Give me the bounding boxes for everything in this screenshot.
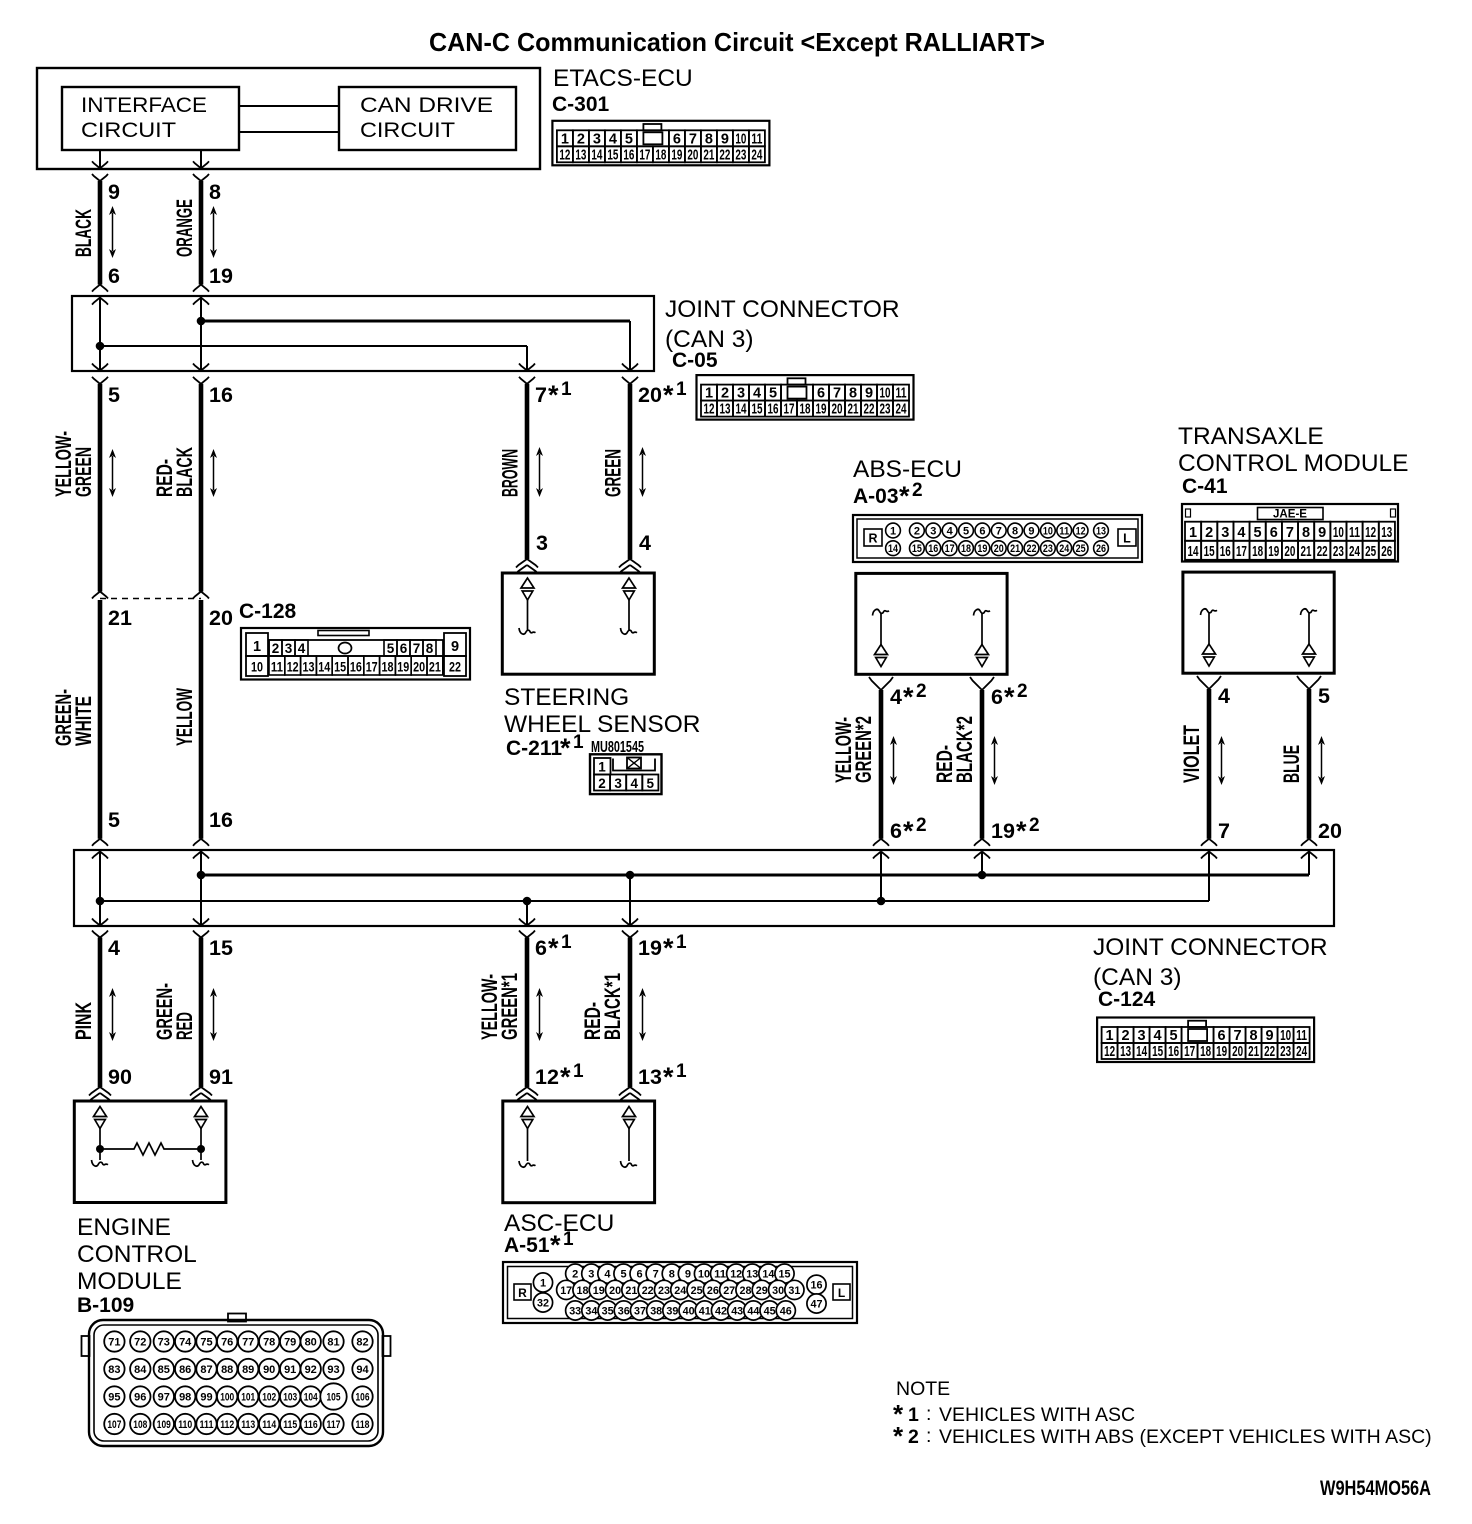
- svg-text:2: 2: [598, 776, 606, 791]
- pin label 5 below C-05: [108, 383, 120, 407]
- svg-text:24: 24: [751, 147, 762, 163]
- svg-text:19: 19: [397, 660, 409, 675]
- svg-text:15: 15: [209, 936, 233, 960]
- double arrow YELLOW-GREEN*2: [890, 736, 897, 785]
- wire color label YELLOW-GREEN: [51, 431, 96, 497]
- svg-text:14: 14: [1188, 544, 1199, 560]
- svg-text:CONTROL: CONTROL: [77, 1241, 197, 1268]
- wire RED-BLACK pin16 to C-128 pin20: [193, 384, 209, 599]
- svg-text:7: 7: [1218, 819, 1230, 843]
- double arrow BLUE: [1318, 736, 1325, 785]
- svg-text:VEHICLES WITH ASC: VEHICLES WITH ASC: [939, 1404, 1135, 1426]
- svg-text:8: 8: [426, 641, 434, 656]
- svg-text:ORANGE: ORANGE: [172, 199, 197, 257]
- joint connector C-05 band box: [72, 296, 654, 371]
- svg-text:21: 21: [1248, 1044, 1259, 1060]
- svg-text:MODULE: MODULE: [77, 1268, 182, 1295]
- pin 7 label: [1218, 819, 1230, 843]
- svg-text:GREEN*1: GREEN*1: [497, 973, 522, 1040]
- svg-text:11: 11: [751, 131, 762, 147]
- svg-text:9: 9: [1028, 525, 1034, 537]
- svg-text:21: 21: [429, 660, 441, 675]
- label B-109: [77, 1294, 134, 1317]
- svg-text:17: 17: [1236, 544, 1247, 560]
- svg-text:*: *: [663, 380, 674, 410]
- svg-text:9: 9: [451, 639, 459, 655]
- pin 19*2 label: [991, 815, 1040, 846]
- steering sensor internal terminal x=629: [621, 578, 638, 634]
- pin label 6*1 below C-124: [535, 932, 572, 963]
- svg-text:28: 28: [740, 1285, 752, 1297]
- svg-text:*: *: [1016, 816, 1027, 846]
- bus wire A inside C-124 to pin 20: [201, 850, 1309, 875]
- svg-text:18: 18: [382, 660, 394, 675]
- wire RED-BLACK*2 ABS pin6 to C-124 pin19: [970, 677, 994, 859]
- svg-text:20: 20: [687, 147, 698, 163]
- svg-text:CONTROL MODULE: CONTROL MODULE: [1178, 450, 1409, 477]
- svg-text:*: *: [560, 1062, 571, 1092]
- svg-text:(CAN 3): (CAN 3): [1093, 964, 1181, 991]
- svg-text:24: 24: [1349, 544, 1360, 560]
- svg-text:L: L: [838, 1286, 845, 1300]
- wire ORANGE from ETACS pin 8 to C-05 pin 19: [193, 150, 209, 305]
- pin label 4 below C-124: [108, 936, 120, 960]
- pin 6*2 label: [890, 815, 927, 846]
- wire color label VIOLET: [1179, 725, 1204, 783]
- svg-text:4: 4: [604, 1269, 611, 1281]
- label C-41: [1182, 475, 1228, 498]
- connector C-124 graphic: [1097, 1018, 1314, 1063]
- svg-text:21: 21: [1010, 543, 1020, 555]
- ETACS-ECU block outline: [37, 68, 540, 169]
- svg-text:2: 2: [1017, 681, 1028, 702]
- svg-text:3: 3: [593, 131, 601, 147]
- svg-text:20: 20: [1318, 819, 1342, 843]
- double arrow VIOLET: [1218, 736, 1225, 785]
- svg-text:4: 4: [609, 131, 617, 147]
- wire color label BROWN: [498, 449, 523, 497]
- svg-text:13: 13: [638, 1065, 662, 1089]
- note *2: [893, 1421, 1432, 1451]
- svg-text:8: 8: [1302, 525, 1310, 541]
- svg-text:25: 25: [1365, 544, 1376, 560]
- svg-text:23: 23: [658, 1285, 670, 1297]
- svg-text:13: 13: [746, 1269, 758, 1281]
- connector C-05 graphic: [697, 375, 914, 420]
- svg-text:23: 23: [1280, 1044, 1291, 1060]
- wire color label YELLOW-GREEN*1: [477, 973, 522, 1040]
- svg-text:2: 2: [1122, 1028, 1130, 1044]
- svg-text:13: 13: [575, 147, 586, 163]
- svg-text:12: 12: [704, 402, 715, 418]
- C-124 bottom exit pin 19 foot pair: [622, 919, 638, 938]
- connector B-109 graphic: [82, 1314, 391, 1447]
- label ABS-ECU: [853, 456, 962, 483]
- svg-text:15: 15: [1204, 544, 1215, 560]
- pin 16 label above C-124: [209, 808, 233, 832]
- svg-text:16: 16: [623, 147, 634, 163]
- svg-text:CAN DRIVE: CAN DRIVE: [360, 93, 493, 117]
- svg-text:3: 3: [588, 1269, 594, 1281]
- engine control module box: [74, 1101, 226, 1203]
- connector C-211 graphic: [590, 754, 662, 794]
- svg-text:15: 15: [334, 660, 346, 675]
- svg-text:10: 10: [880, 386, 891, 402]
- junction dot C-124 (201,875): [197, 871, 206, 880]
- svg-text:40: 40: [683, 1306, 695, 1318]
- svg-text:16: 16: [768, 402, 779, 418]
- svg-text:2: 2: [1205, 525, 1213, 541]
- junction dot C-124 (982,875): [978, 871, 987, 880]
- junction dot C-05 wire A: [197, 317, 206, 326]
- svg-text::: :: [926, 1403, 931, 1425]
- svg-text:TRANSAXLE: TRANSAXLE: [1178, 423, 1324, 450]
- svg-text:12: 12: [535, 1065, 559, 1089]
- svg-text:20: 20: [609, 1285, 621, 1297]
- svg-text:2: 2: [272, 641, 280, 656]
- svg-text:25: 25: [691, 1285, 703, 1297]
- connector C-128 graphic: [241, 628, 470, 680]
- svg-text:14: 14: [1136, 1044, 1147, 1060]
- junction dot C-124 (630,875): [626, 871, 635, 880]
- svg-text:34: 34: [585, 1306, 598, 1318]
- pin label 20*1 below C-05: [638, 379, 687, 410]
- svg-text:36: 36: [618, 1306, 630, 1318]
- stub wire C-124 pin6(ABS) from top: [880, 852, 882, 902]
- svg-text:14: 14: [591, 147, 602, 163]
- svg-text:17: 17: [945, 543, 955, 555]
- wire YELLOW-GREEN pin5 to C-128 pin21: [92, 384, 108, 599]
- label ETACS-ECU: [553, 65, 693, 92]
- svg-text:30: 30: [772, 1285, 784, 1297]
- double arrow RED-BLACK*1: [639, 988, 646, 1041]
- svg-text:92: 92: [305, 1364, 317, 1376]
- svg-text:84: 84: [134, 1364, 147, 1376]
- wire color label GREEN-RED: [152, 983, 197, 1040]
- pin 5 label above C-124: [108, 808, 120, 832]
- svg-text:1: 1: [561, 379, 572, 400]
- double arrow GREEN-RED: [210, 988, 217, 1041]
- svg-text:21: 21: [1301, 544, 1312, 560]
- svg-text:WHITE: WHITE: [71, 696, 96, 746]
- wire through C-05 at pin19/16: [200, 296, 202, 371]
- connector C-128 interface dashed line: [100, 598, 201, 600]
- svg-text:98: 98: [179, 1392, 191, 1404]
- svg-text:1: 1: [1106, 1028, 1114, 1044]
- svg-text:BLACK*2: BLACK*2: [952, 716, 977, 783]
- svg-text:17: 17: [639, 147, 650, 163]
- pin 4 label: [639, 531, 651, 555]
- ASC internal terminal x=629: [621, 1107, 638, 1168]
- label MU801545: [591, 739, 644, 756]
- pin label 19*1 below C-124: [638, 932, 687, 963]
- pin 6 label: [108, 264, 120, 288]
- svg-text:4: 4: [630, 776, 638, 791]
- svg-text:8: 8: [209, 180, 221, 204]
- connector C-301 graphic: [552, 121, 769, 166]
- svg-text:16: 16: [209, 383, 233, 407]
- pin 4*2 label: [890, 681, 927, 712]
- svg-text:*: *: [560, 733, 571, 763]
- svg-text:VIOLET: VIOLET: [1179, 725, 1204, 783]
- wire color label GREEN: [601, 449, 626, 497]
- label C-301: [552, 93, 610, 116]
- wire color label RED-BLACK: [152, 447, 197, 497]
- pin 5 label: [1318, 684, 1330, 708]
- wire interface-to-candrive lower: [239, 131, 339, 133]
- svg-text:32: 32: [537, 1298, 549, 1310]
- svg-text:4: 4: [1154, 1028, 1162, 1044]
- svg-text:6: 6: [673, 131, 681, 147]
- svg-text:17: 17: [1184, 1044, 1195, 1060]
- svg-text:1: 1: [908, 1404, 919, 1426]
- svg-text:105: 105: [327, 1392, 341, 1404]
- svg-text:6: 6: [400, 641, 408, 656]
- svg-text:20: 20: [994, 543, 1004, 555]
- svg-text:3: 3: [737, 386, 745, 402]
- label STEERING WHEEL SENSOR: [504, 684, 701, 738]
- svg-text:22: 22: [642, 1285, 654, 1297]
- svg-text:10: 10: [1280, 1028, 1291, 1044]
- svg-text:9: 9: [108, 180, 120, 204]
- svg-text:*: *: [903, 682, 914, 712]
- wire color label YELLOW: [172, 688, 197, 746]
- svg-text:12: 12: [1365, 525, 1376, 541]
- svg-text:GREEN*2: GREEN*2: [851, 716, 876, 783]
- svg-text:1: 1: [561, 932, 572, 953]
- pin 90 label: [108, 1065, 132, 1089]
- svg-text:19: 19: [977, 543, 987, 555]
- svg-text:1: 1: [676, 1061, 687, 1082]
- svg-text:10: 10: [1333, 525, 1344, 541]
- svg-text:38: 38: [650, 1306, 662, 1318]
- svg-text:17: 17: [366, 660, 378, 675]
- svg-text:7: 7: [1286, 525, 1294, 541]
- svg-text:CIRCUIT: CIRCUIT: [360, 118, 455, 142]
- svg-text:18: 18: [1200, 1044, 1211, 1060]
- svg-text:L: L: [1123, 532, 1131, 546]
- svg-text:24: 24: [896, 402, 907, 418]
- wire interface-to-candrive upper: [239, 105, 339, 107]
- svg-text:102: 102: [262, 1392, 276, 1404]
- svg-text:7: 7: [535, 383, 547, 407]
- ECM internal terminal x=100: [92, 1107, 109, 1167]
- C-05 bottom exit pin 20 foot pair: [622, 364, 638, 384]
- double arrow PINK: [109, 988, 116, 1041]
- pin 21 label: [108, 606, 132, 630]
- svg-text:2: 2: [916, 815, 927, 836]
- svg-text:1: 1: [573, 1061, 584, 1082]
- svg-text:20: 20: [413, 660, 425, 675]
- svg-text:100: 100: [220, 1392, 234, 1404]
- svg-text:7: 7: [689, 131, 697, 147]
- wire BROWN C-05 pin7 to steering sensor pin3: [516, 384, 538, 574]
- svg-text:9: 9: [1318, 525, 1326, 541]
- pin 91 label: [209, 1065, 233, 1089]
- pin label 15 below C-124: [209, 936, 233, 960]
- svg-text:24: 24: [674, 1285, 687, 1297]
- bus wire B inside C-124 to pin 7: [100, 850, 1209, 901]
- svg-text:WHEEL SENSOR: WHEEL SENSOR: [504, 711, 701, 738]
- svg-text:10: 10: [251, 660, 263, 675]
- svg-text:85: 85: [158, 1364, 170, 1376]
- svg-text:8: 8: [849, 386, 857, 402]
- wire YELLOW-GREEN*1 C-124 to ASC pin 12*1: [516, 938, 538, 1102]
- svg-text:6: 6: [535, 936, 547, 960]
- terminating resistor inside ECM: [100, 1143, 201, 1155]
- svg-text:20: 20: [1232, 1044, 1243, 1060]
- svg-text:23: 23: [1043, 543, 1053, 555]
- svg-text:YELLOW: YELLOW: [172, 688, 197, 746]
- svg-text:35: 35: [602, 1306, 614, 1318]
- svg-text:103: 103: [283, 1392, 297, 1404]
- svg-text:5: 5: [1254, 525, 1262, 541]
- svg-text:BLACK*1: BLACK*1: [600, 973, 625, 1040]
- svg-text:1: 1: [598, 760, 606, 775]
- svg-text:16: 16: [811, 1280, 823, 1292]
- svg-text:74: 74: [179, 1337, 192, 1349]
- C-124 bottom exit pin 15 foot pair: [193, 919, 209, 938]
- svg-text:118: 118: [356, 1419, 370, 1431]
- wire color label PINK: [71, 1002, 96, 1040]
- svg-text:77: 77: [242, 1337, 254, 1349]
- svg-text:88: 88: [221, 1364, 233, 1376]
- svg-text:7: 7: [996, 525, 1002, 537]
- C-124 bottom exit pin 4 foot pair: [92, 919, 108, 938]
- svg-text:15: 15: [1152, 1044, 1163, 1060]
- svg-text:2: 2: [916, 681, 927, 702]
- ECM junction dot x=201: [197, 1145, 205, 1153]
- svg-text:4: 4: [1218, 684, 1230, 708]
- svg-text:41: 41: [699, 1306, 711, 1318]
- svg-text:1: 1: [676, 379, 687, 400]
- svg-text:ABS-ECU: ABS-ECU: [853, 456, 962, 483]
- svg-text:*: *: [548, 933, 559, 963]
- svg-text:*: *: [1004, 682, 1015, 712]
- svg-text:CIRCUIT: CIRCUIT: [81, 118, 176, 142]
- svg-text:81: 81: [327, 1337, 339, 1349]
- svg-text:18: 18: [961, 543, 971, 555]
- svg-text:31: 31: [788, 1285, 800, 1297]
- svg-text:46: 46: [780, 1306, 792, 1318]
- double arrow RED-BLACK: [210, 449, 217, 497]
- junction dot C-05 wire B: [96, 342, 105, 351]
- svg-text:5: 5: [1318, 684, 1330, 708]
- svg-text:12: 12: [730, 1269, 742, 1281]
- svg-text:8: 8: [669, 1269, 675, 1281]
- svg-text:15: 15: [779, 1269, 791, 1281]
- svg-text:*: *: [548, 380, 559, 410]
- svg-text:101: 101: [241, 1392, 255, 1404]
- svg-text:8: 8: [1012, 525, 1018, 537]
- svg-text:CAN-C Communication Circuit <E: CAN-C Communication Circuit <Except RALL…: [429, 27, 1045, 57]
- svg-text:86: 86: [179, 1364, 191, 1376]
- steering sensor internal terminal x=527.5: [519, 578, 536, 634]
- svg-text:12: 12: [287, 660, 299, 675]
- svg-text:18: 18: [577, 1285, 589, 1297]
- svg-text:8: 8: [705, 131, 713, 147]
- svg-text:9: 9: [865, 386, 873, 402]
- svg-text:5: 5: [647, 776, 655, 791]
- svg-text:114: 114: [262, 1419, 277, 1431]
- svg-text:20: 20: [209, 606, 233, 630]
- svg-text:13: 13: [1096, 525, 1106, 537]
- svg-text:2: 2: [908, 1426, 919, 1448]
- double arrow RED-BLACK*2: [991, 736, 998, 785]
- svg-text:15: 15: [752, 402, 763, 418]
- svg-text:3: 3: [614, 776, 622, 791]
- svg-text:108: 108: [133, 1419, 147, 1431]
- svg-text:A-51: A-51: [504, 1234, 550, 1257]
- svg-text:5: 5: [1170, 1028, 1178, 1044]
- label C-211*1: [506, 732, 584, 763]
- svg-text:6: 6: [1270, 525, 1278, 541]
- junction dot C-124 (881,901): [877, 897, 886, 906]
- svg-text:INTERFACE: INTERFACE: [81, 93, 207, 117]
- pin 9 label: [108, 180, 120, 204]
- svg-text:99: 99: [200, 1392, 212, 1404]
- svg-text:4: 4: [1237, 525, 1245, 541]
- svg-text:106: 106: [356, 1392, 370, 1404]
- pin 19 label: [209, 264, 233, 288]
- svg-text:14: 14: [318, 660, 330, 675]
- svg-text:72: 72: [134, 1337, 146, 1349]
- svg-text:16: 16: [928, 543, 938, 555]
- svg-text:7: 7: [1234, 1028, 1242, 1044]
- svg-text:PINK: PINK: [71, 1002, 96, 1040]
- ECM junction dot x=100: [96, 1145, 104, 1153]
- stub wire C-124 pin19(ABS) from top: [981, 852, 983, 876]
- svg-text:44: 44: [747, 1306, 760, 1318]
- double arrow YELLOW-GREEN: [109, 449, 116, 497]
- svg-text:RED: RED: [172, 1012, 197, 1040]
- svg-text:1: 1: [540, 1278, 546, 1290]
- svg-text:116: 116: [304, 1419, 318, 1431]
- svg-text:22: 22: [864, 402, 875, 418]
- wire through C-124 at pin5/4: [99, 850, 101, 926]
- svg-text:BLACK: BLACK: [172, 447, 197, 497]
- svg-text:73: 73: [158, 1337, 170, 1349]
- pin 13*1 label: [638, 1061, 687, 1092]
- svg-text:R: R: [518, 1286, 527, 1300]
- svg-text:4: 4: [753, 386, 761, 402]
- svg-text:JOINT CONNECTOR: JOINT CONNECTOR: [665, 296, 900, 323]
- drawing number W9H54MO56A: [1320, 1477, 1431, 1500]
- interface circuit block U-INT: [62, 87, 239, 150]
- wire GREEN C-05 pin20 to steering sensor pin4: [619, 384, 641, 574]
- svg-text:15: 15: [607, 147, 618, 163]
- svg-text:16: 16: [350, 660, 362, 675]
- svg-text:6: 6: [637, 1269, 643, 1281]
- double arrow BROWN: [536, 447, 543, 497]
- double arrow on ORANGE wire: [210, 206, 217, 258]
- svg-text:6: 6: [108, 264, 120, 288]
- junction dot C-124 (527,901): [523, 897, 532, 906]
- svg-text:13: 13: [1381, 525, 1392, 541]
- label TRANSAXLE CONTROL MODULE: [1178, 423, 1409, 477]
- svg-text:B-109: B-109: [77, 1294, 134, 1317]
- svg-text:4: 4: [639, 531, 651, 555]
- svg-text:4: 4: [947, 525, 954, 537]
- pin 8 label: [209, 180, 221, 204]
- svg-text:BLUE: BLUE: [1279, 745, 1304, 783]
- svg-text:ENGINE: ENGINE: [77, 1214, 171, 1241]
- svg-text:5: 5: [108, 808, 120, 832]
- label A-51*1: [504, 1229, 574, 1260]
- svg-text:5: 5: [620, 1269, 626, 1281]
- svg-text:90: 90: [108, 1065, 132, 1089]
- svg-text:20: 20: [1284, 544, 1295, 560]
